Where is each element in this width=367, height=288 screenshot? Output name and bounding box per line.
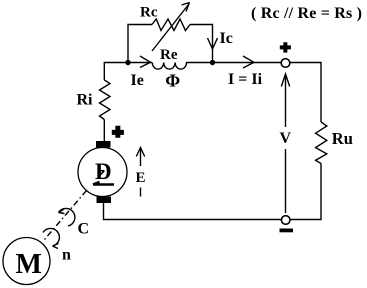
svg-text:Φ: Φ [165, 71, 180, 91]
mark inside D glyph [98, 171, 104, 177]
node B junction dot [210, 60, 215, 65]
svg-text:C: C [78, 221, 90, 238]
arrowhead of n curl [53, 244, 59, 249]
svg-text:I = Ii: I = Ii [228, 71, 263, 88]
shaft dash-dot coupling D to M [43, 191, 87, 242]
plus sign at D armature top [112, 126, 124, 138]
terminal + open circle [281, 59, 290, 68]
wire: + terminal to Ru branch top [290, 63, 321, 123]
svg-text:Ru: Ru [332, 129, 353, 148]
wire: node B to + terminal [213, 62, 282, 64]
inductor Re coil [152, 63, 186, 70]
svg-text:M: M [16, 249, 42, 280]
minus bar under - terminal [280, 229, 294, 233]
svg-text:E: E [136, 170, 146, 186]
wire: Ru bottom to - terminal [290, 164, 321, 220]
arrowhead Ie pointing right [140, 56, 151, 68]
arrowhead I pointing right [243, 56, 254, 68]
underline arrow under D [93, 182, 114, 185]
svg-text:Ri: Ri [77, 92, 94, 109]
brush terminal top of D [96, 141, 111, 148]
resistor Ru zigzag [316, 122, 327, 164]
rotation arrow n curl [43, 228, 59, 246]
wire: bottom brush down and bottom rail to - terminal [104, 203, 282, 220]
rotation arrow C curl [59, 208, 75, 226]
wire: Ri to top brush of D [103, 120, 105, 142]
arrow E beside machine [136, 148, 144, 197]
terminal - open circle [281, 216, 290, 225]
wire: main horizontal node A to Re coil [128, 62, 152, 64]
wire: top loop left vertical from node A up [128, 25, 152, 63]
arrowhead of C curl [59, 209, 65, 214]
svg-text:V: V [280, 130, 292, 147]
arrow through Rc (rheostat arrow) [152, 3, 190, 52]
svg-text:Rc: Rc [140, 5, 158, 21]
machine D circle [78, 148, 127, 197]
svg-text:Ie: Ie [131, 72, 144, 89]
brush terminal bottom of D [97, 197, 112, 204]
node A junction dot [125, 60, 130, 65]
arrow V between terminals [281, 74, 289, 213]
resistor Ri zigzag [100, 80, 111, 120]
wire: node A to left, down to Ri [104, 63, 128, 81]
wire: Re coil to node B [186, 62, 213, 64]
resistor Rc (variable) zigzag [152, 19, 190, 31]
motor M circle [3, 238, 50, 285]
svg-text:Ic: Ic [220, 30, 233, 47]
svg-text:( Rc // Re = Rs ): ( Rc // Re = Rs ) [251, 5, 362, 22]
wire: top loop right side down to node B (Ic branch) [190, 25, 213, 63]
svg-text:Re: Re [160, 47, 178, 63]
svg-text:n: n [62, 247, 71, 264]
arrowhead Ic pointing down [208, 38, 218, 49]
plus sign at + terminal [280, 42, 291, 52]
